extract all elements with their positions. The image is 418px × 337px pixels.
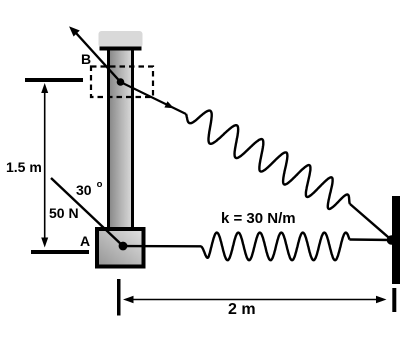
50 N force line (51, 178, 123, 246)
bottom dim tick left (117, 279, 121, 316)
label k = 30 N/m (221, 210, 296, 227)
wall (392, 196, 400, 284)
label 30 deg (76, 182, 102, 198)
label B (81, 51, 91, 67)
bottom reference ledge (31, 250, 89, 254)
dimension line 1.5 m (41, 83, 48, 248)
column shaft (107, 51, 134, 228)
small arrowhead on link line (164, 101, 174, 108)
top spring (186, 111, 350, 209)
bottom spring (201, 233, 350, 261)
column cap (99, 31, 143, 48)
link line B to top spring (121, 82, 187, 114)
pin B (117, 78, 125, 86)
pin A (119, 242, 128, 251)
bottom dim tick right (392, 288, 396, 312)
column right edge (131, 51, 134, 228)
label 1.5 m (6, 159, 42, 175)
link top spring to wall (350, 204, 392, 240)
dimension line 2 m (123, 296, 387, 303)
force arrow at B (70, 28, 120, 83)
label 50 N (49, 205, 79, 221)
link A to bottom spring (123, 245, 201, 248)
link bottom spring to wall (349, 238, 391, 241)
block A (97, 229, 144, 267)
column left edge (107, 51, 110, 228)
dashed guide box at B (91, 67, 153, 98)
cap base bar (100, 47, 142, 51)
label 2 m (228, 301, 256, 319)
label A (80, 233, 90, 249)
top reference ledge (25, 78, 83, 82)
pin at wall (387, 235, 397, 245)
